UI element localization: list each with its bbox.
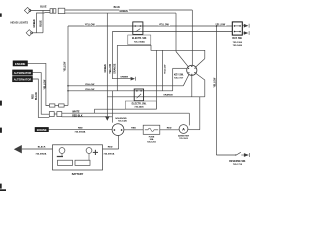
label ORANGE vert x115.5 bbox=[113, 62, 116, 74]
wire ORANGE long y96.8 bbox=[107, 95, 205, 98]
svg-text:BLUE: BLUE bbox=[114, 7, 121, 9]
fuse F1 bbox=[143, 125, 160, 134]
wire alternator1 drop bbox=[33, 73, 50, 115]
svg-text:YELLOW: YELLOW bbox=[110, 63, 112, 74]
scan speck 4 bbox=[0, 184, 2, 189]
label RED wire1 bbox=[78, 126, 84, 129]
battery cell block B bbox=[75, 160, 90, 165]
wire row2 link bbox=[54, 113, 57, 116]
wire key lower-right diag bbox=[196, 74, 205, 97]
connector plug pin A bbox=[50, 9, 53, 14]
node x216.4 y26 bbox=[216, 25, 218, 27]
wire solenoid-fuse bbox=[124, 128, 143, 131]
label box ENGINE left bbox=[13, 61, 28, 66]
scan speck bottom bbox=[0, 189, 6, 191]
wire fuse-ammeter bbox=[160, 128, 179, 131]
wire ammeter riser x199.8 bbox=[198, 97, 201, 130]
svg-text:ELECTR. SW.: ELECTR. SW. bbox=[132, 104, 147, 106]
node x68 y85.8 bbox=[67, 85, 69, 87]
connector housing bbox=[58, 8, 65, 13]
wire green arrow feed bbox=[112, 77, 130, 80]
scan speck 3 bbox=[0, 128, 2, 133]
label RED-BLK bbox=[72, 114, 84, 116]
chassis ground arrow black bbox=[14, 145, 22, 153]
svg-text:725-1712: 725-1712 bbox=[233, 164, 243, 166]
wire drop to ammeter x189.3 bbox=[188, 113, 191, 125]
reverse switch arrow bbox=[244, 153, 249, 157]
svg-text:GREEN: GREEN bbox=[120, 11, 129, 13]
svg-text:725-3005: 725-3005 bbox=[179, 138, 189, 140]
label box ALTERNATOR1 bbox=[13, 70, 33, 75]
label box ALTERNATOR2 bbox=[13, 76, 33, 81]
label ORANGE bbox=[163, 93, 174, 96]
wire WHITE riser x156.4 bbox=[155, 50, 158, 109]
wire WHITE jog up bbox=[95, 109, 157, 113]
label YELLOW 2 bbox=[159, 23, 170, 26]
scan speck 1 bbox=[0, 13, 2, 16]
svg-text:GREEN: GREEN bbox=[105, 64, 107, 73]
svg-text:WHITE: WHITE bbox=[72, 112, 80, 114]
wire YELLOW left drop x68 bbox=[67, 26, 70, 106]
wire key bottom drop bbox=[190, 75, 193, 96]
wire drop x216.4 bbox=[215, 26, 218, 155]
svg-text:725-1261: 725-1261 bbox=[147, 141, 157, 143]
headlight LAMP1 bbox=[24, 7, 30, 13]
svg-text:YELLOW: YELLOW bbox=[85, 25, 96, 27]
wire riser x172.7 bbox=[171, 68, 174, 91]
safety switch SW1 bbox=[133, 22, 143, 35]
interlock row2 pin B bbox=[57, 112, 62, 117]
svg-text:A: A bbox=[182, 127, 185, 132]
svg-text:ELECTR. SW.: ELECTR. SW. bbox=[132, 38, 147, 40]
wire YELLOW branch upper y85.8 bbox=[68, 84, 183, 87]
wire lamp1 to plug bbox=[31, 9, 50, 12]
wire RED engine-solenoid bbox=[49, 128, 113, 131]
label SW2 bbox=[125, 101, 156, 109]
battery terminal positive bbox=[86, 148, 92, 154]
wire green riser bbox=[37, 13, 45, 33]
svg-text:YELLOW: YELLOW bbox=[165, 64, 167, 74]
wire riser x162.4 bbox=[161, 50, 164, 91]
wire YELLOW main y26 bbox=[68, 25, 232, 28]
connector arrow GREEN mid bbox=[131, 77, 135, 81]
label BLUE main bbox=[113, 6, 121, 9]
interlock row2 pin A bbox=[49, 112, 54, 117]
label YELLOW branch lower bbox=[85, 88, 96, 91]
wire inner loop left drop x117.3 bbox=[116, 45, 119, 91]
svg-text:GREEN: GREEN bbox=[120, 77, 128, 79]
ammeter M1 bbox=[179, 125, 188, 134]
key switch KS1 bbox=[187, 65, 197, 75]
wire loop left drop x112.4 bbox=[111, 32, 114, 79]
wire solenoid bottom bbox=[117, 136, 120, 150]
connector arrow out B bbox=[244, 31, 249, 35]
wire lamp2 joint bbox=[32, 31, 43, 34]
scan speck 2 bbox=[0, 101, 2, 106]
svg-text:BATTERY: BATTERY bbox=[72, 173, 84, 176]
wire battery negative BLACK bbox=[22, 148, 53, 151]
wire battery positive RED bbox=[103, 148, 119, 151]
svg-text:RED: RED bbox=[108, 147, 113, 149]
label YELLOW branch upper bbox=[85, 83, 96, 86]
wire row1 link bbox=[55, 104, 59, 107]
wire key left y68.3 bbox=[173, 67, 187, 70]
label SW1 bbox=[128, 35, 151, 45]
label box ENGINE bottom bbox=[35, 127, 49, 131]
wire row1 out bbox=[64, 104, 68, 107]
wire drop to solenoid x112.4 bbox=[111, 91, 114, 123]
label GREEN arrow bbox=[120, 75, 129, 78]
wire engine drop bbox=[28, 63, 50, 105]
svg-text:GREEN: GREEN bbox=[34, 19, 36, 28]
battery switch SW3 bbox=[232, 22, 242, 35]
wire BLUE drop to key switch bbox=[191, 10, 194, 65]
wire diag to key upper-right bbox=[196, 59, 205, 67]
svg-text:KEY SW.: KEY SW. bbox=[174, 74, 184, 76]
wire key lower-left diag bbox=[183, 74, 189, 85]
svg-text:RED-BLK: RED-BLK bbox=[72, 116, 83, 118]
wire YELLOW branch lower y90.8 bbox=[68, 89, 173, 92]
solenoid S1 bbox=[112, 124, 124, 136]
svg-text:YELLOW: YELLOW bbox=[65, 61, 67, 72]
svg-text:725-1306: 725-1306 bbox=[233, 42, 243, 44]
svg-text:BLUE: BLUE bbox=[40, 7, 47, 9]
wire alternator2 drop bbox=[33, 79, 50, 117]
svg-text:RED: RED bbox=[131, 127, 136, 129]
label YELLOW 3 bbox=[215, 23, 226, 26]
wire WHITE out bbox=[62, 112, 95, 115]
wire RED-BLK bbox=[62, 115, 113, 118]
label WHITE bbox=[72, 110, 82, 112]
headlight LAMP2 bbox=[26, 30, 32, 36]
interlock row1 pin A bbox=[49, 104, 55, 107]
wire GREEN ground drop x107.3 bbox=[106, 13, 109, 116]
svg-text:BLUE: BLUE bbox=[41, 20, 43, 27]
svg-text:RED: RED bbox=[167, 127, 172, 129]
svg-text:FUSE: FUSE bbox=[149, 136, 155, 138]
wire ammeter right bbox=[188, 128, 200, 131]
battery plus sign bbox=[93, 150, 98, 154]
wire mid y113 long bbox=[95, 112, 190, 115]
svg-text:YELLOW: YELLOW bbox=[159, 25, 170, 27]
reverse switch blade bbox=[236, 152, 241, 155]
label GREEN vert x105 bbox=[104, 62, 107, 73]
connector arrow out A bbox=[244, 24, 249, 28]
wire blue riser bbox=[42, 11, 45, 33]
wire GREEN drop x176 bbox=[175, 13, 178, 51]
wire loop right to x204.8 bbox=[156, 50, 204, 58]
svg-text:SOLENOID: SOLENOID bbox=[115, 118, 127, 120]
wire GREEN main top bbox=[65, 12, 176, 15]
wire diag green-key bbox=[176, 52, 188, 67]
wire to reverse switch bbox=[216, 154, 236, 157]
battery terminal negative bbox=[59, 148, 65, 154]
svg-text:RED: RED bbox=[78, 127, 83, 129]
svg-text:YELLOW: YELLOW bbox=[44, 79, 46, 90]
electric switch SW2 bbox=[134, 89, 143, 101]
svg-text:RED: RED bbox=[33, 94, 35, 99]
battery minus sign bbox=[57, 154, 63, 159]
battery BT1 case bbox=[53, 145, 103, 170]
battery cell block A bbox=[58, 160, 73, 165]
svg-text:REVERSE SW.: REVERSE SW. bbox=[229, 160, 246, 163]
wire main y31.5 bbox=[112, 30, 232, 33]
node x68 y90.8 bbox=[67, 90, 69, 92]
ground chassis arrow bbox=[105, 116, 110, 120]
label YELLOW vert x111 bbox=[109, 62, 112, 74]
svg-text:YELLOW: YELLOW bbox=[215, 77, 217, 88]
connector plug pin B bbox=[53, 9, 56, 14]
wire inner loop top bbox=[117, 45, 156, 50]
interlock row1 pin B bbox=[59, 104, 65, 107]
wire BLUE main top bbox=[65, 9, 193, 12]
label GREEN main bbox=[119, 10, 129, 13]
label YELLOW 1 bbox=[85, 23, 96, 26]
svg-text:725-1717: 725-1717 bbox=[174, 78, 184, 80]
